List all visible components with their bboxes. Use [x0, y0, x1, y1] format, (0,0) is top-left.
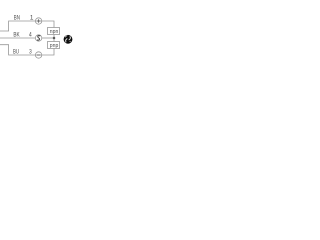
svg-text:1: 1 — [30, 15, 34, 22]
svg-text:npn: npn — [50, 29, 59, 35]
svg-text:BK: BK — [13, 32, 20, 39]
svg-text:BU: BU — [13, 49, 19, 56]
svg-text:4: 4 — [29, 32, 32, 39]
svg-text:pnp: pnp — [50, 43, 59, 49]
svg-text:BN: BN — [14, 15, 20, 22]
svg-text:3: 3 — [29, 49, 32, 56]
